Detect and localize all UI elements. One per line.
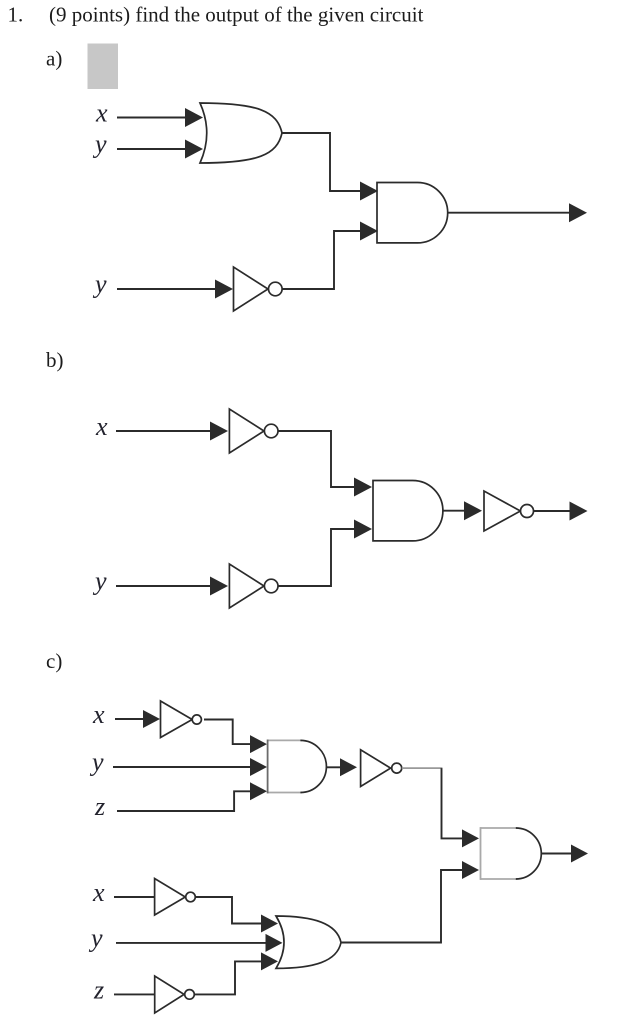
inverter NOT2 bubble — [264, 424, 278, 438]
wire OR2 output to AND4 bottom input — [341, 870, 462, 943]
and-gate AND4 — [481, 827, 518, 829]
wire OR1 output to AND1 top input — [282, 133, 361, 191]
wire NOT4 output — [534, 510, 571, 512]
svg-text:z: z — [94, 792, 105, 821]
arrowhead x into OR1 — [185, 108, 203, 127]
svg-text:c): c) — [46, 649, 62, 673]
arrowhead into NOT4 — [464, 501, 482, 520]
inverter NOT7 triangle — [155, 879, 186, 916]
arrowhead into AND2 top — [354, 478, 372, 497]
wire NOT3 to AND2 bottom input — [278, 529, 355, 586]
svg-text:y: y — [92, 270, 107, 299]
svg-text:1.: 1. — [8, 3, 24, 27]
wire y to NOT3 — [116, 585, 211, 587]
wire NOT8 to OR2 input 3 — [194, 961, 262, 994]
wire AND3 output to NOT6 — [327, 766, 341, 768]
arrowhead x into NOT5 — [143, 710, 160, 728]
arrowhead x into NOT2 — [210, 422, 228, 441]
wire NOT1 to AND1 bottom input — [282, 231, 361, 289]
svg-text:y: y — [88, 924, 103, 953]
and-gate AND3 — [268, 739, 302, 741]
arrowhead y into NOT1 — [215, 280, 233, 299]
inverter NOT3 bubble — [264, 579, 278, 593]
inverter NOT5 triangle — [161, 701, 193, 738]
or-gate OR2 — [276, 916, 341, 968]
arrowhead into OR2 input 2 — [266, 934, 283, 952]
arrowhead into AND3 input 2 — [250, 758, 267, 776]
wire AND4 output — [541, 853, 571, 855]
and-gate AND1 — [377, 183, 448, 243]
wire AND1 output — [448, 212, 570, 214]
wire AND2 output to NOT4 — [443, 510, 465, 512]
svg-text:x: x — [92, 700, 105, 729]
svg-text:z: z — [93, 976, 104, 1005]
arrowhead circuit a output — [569, 203, 587, 222]
arrowhead into AND4 bottom — [462, 861, 479, 879]
svg-text:(9 points) find the output of: (9 points) find the output of the given … — [49, 3, 424, 27]
svg-text:x: x — [95, 412, 108, 441]
arrowhead into AND3 input 3 — [250, 782, 267, 800]
svg-text:b): b) — [46, 348, 64, 372]
arrowhead into NOT6 — [340, 758, 357, 776]
arrowhead into AND1 bottom — [360, 222, 378, 241]
svg-text:y: y — [89, 748, 104, 777]
inverter NOT8 bubble — [185, 990, 195, 1000]
wire NOT5 to AND3 input 1 — [204, 720, 250, 745]
svg-text:x: x — [92, 878, 105, 907]
svg-text:y: y — [92, 567, 107, 596]
arrowhead into OR2 input 1 — [261, 915, 278, 933]
inverter NOT5 bubble — [192, 715, 201, 724]
inverter NOT8 triangle — [155, 976, 184, 1013]
wire NOT7 to OR2 input 1 — [195, 897, 263, 924]
wire y to AND3 input 2 — [113, 766, 250, 768]
svg-text:x: x — [95, 99, 108, 128]
wire x to OR1 — [117, 117, 186, 119]
inverter NOT1 triangle — [234, 267, 269, 311]
arrowhead y into OR1 — [185, 140, 203, 159]
inverter NOT3 triangle — [229, 564, 264, 608]
arrowhead into AND1 top — [360, 182, 378, 201]
arrowhead into AND4 top — [462, 829, 479, 847]
wire NOT2 to AND2 top input — [278, 431, 355, 487]
wire z to AND3 input 3 — [117, 791, 250, 811]
wire NOT6 to AND4 top input — [402, 767, 443, 769]
wire z to NOT8 — [114, 993, 155, 995]
inverter NOT4 bubble — [521, 505, 534, 518]
gray placeholder box — [88, 44, 119, 90]
wire y to OR2 input 2 — [116, 942, 266, 944]
arrowhead circuit c output — [571, 845, 588, 863]
arrowhead into AND2 bottom — [354, 520, 372, 539]
arrowhead into AND3 input 1 — [250, 735, 267, 753]
inverter NOT2 triangle — [229, 409, 264, 453]
arrowhead circuit b output — [570, 502, 588, 521]
arrowhead y into NOT3 — [210, 577, 228, 596]
wire x to NOT5 — [115, 718, 143, 720]
and-gate AND2 — [373, 481, 443, 541]
wire y to OR1 — [117, 148, 186, 150]
inverter NOT4 triangle — [484, 491, 520, 531]
arrowhead into OR2 input 3 — [261, 952, 278, 970]
wire x to NOT7 — [114, 896, 155, 898]
wire x to NOT2 — [116, 430, 211, 432]
inverter NOT6 triangle — [361, 750, 391, 787]
svg-text:y: y — [92, 130, 107, 159]
or-gate OR1 — [200, 103, 282, 163]
inverter NOT6 bubble — [392, 763, 402, 773]
svg-text:a): a) — [46, 47, 62, 71]
inverter NOT7 bubble — [186, 892, 196, 902]
wire y to NOT1 — [117, 288, 216, 290]
inverter NOT1 bubble — [269, 282, 283, 296]
